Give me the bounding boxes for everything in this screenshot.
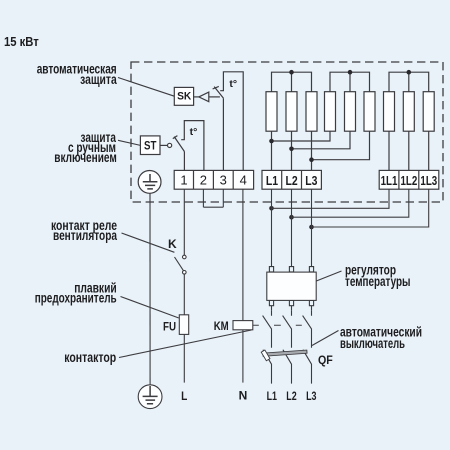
- svg-text:включением: включением: [54, 150, 117, 166]
- temperature regulator box: [267, 272, 316, 300]
- label: регулятор температуры: [345, 263, 411, 290]
- label leader to QF breaker: [312, 331, 339, 346]
- earth electrode symbol (bottom ground): [138, 385, 162, 409]
- regulator top pin 2: [289, 267, 293, 272]
- heating element 4: [325, 92, 336, 132]
- regulator bottom pin 2: [289, 301, 293, 311]
- wire K to fuse FU: [183, 274, 185, 315]
- wire arrow to SK thermal contact: [209, 96, 220, 98]
- wire SK to arrow: [194, 96, 199, 98]
- wire element 6 bottom to phase 3: [312, 131, 370, 160]
- thermal contact blade of SK: [214, 87, 223, 99]
- svg-text:1L3: 1L3: [420, 174, 437, 188]
- wire element 3 bottom to terminal L3: [311, 131, 313, 170]
- svg-text:контактор: контактор: [64, 350, 116, 366]
- label: автоматический выключатель: [340, 325, 422, 353]
- wire coil to N: [242, 330, 244, 383]
- heating element 2: [286, 92, 297, 132]
- svg-text:L1: L1: [267, 389, 278, 403]
- label leader to KM coil: [119, 330, 252, 358]
- heating element 7: [384, 92, 395, 132]
- svg-text:защита: защита: [80, 72, 117, 88]
- contactor coil KM: [233, 321, 253, 330]
- wire ST blade down to terminal 1: [183, 152, 185, 171]
- wire terminal 4 to contactor coil: [242, 189, 244, 320]
- wire ST to contact circle: [160, 144, 167, 146]
- mechanical linkage KM: [253, 324, 302, 326]
- svg-text:L3: L3: [306, 389, 317, 403]
- terminal labels 1L1 1L2 1L3: [381, 174, 438, 188]
- heater group 1 top bus: [272, 72, 312, 92]
- regulator bottom pin 1: [269, 301, 273, 311]
- junction dot element4/phase1: [269, 139, 274, 144]
- label: контакт реле вентилятора: [51, 218, 117, 244]
- contactor KM contact 1: [263, 310, 272, 348]
- svg-text:15 кВт: 15 кВт: [4, 34, 39, 49]
- wire t° box left leg down to terminal 3: [222, 98, 224, 170]
- heating element 9: [423, 92, 434, 132]
- arrow (actuator triangle) of SK: [199, 92, 209, 102]
- contactor KM contact 3: [303, 310, 312, 348]
- label leader to K contact: [122, 233, 175, 252]
- breaker QF contact 3: [303, 350, 312, 384]
- label: автоматическая защита: [37, 62, 117, 88]
- wire element 5 bottom to phase 2: [292, 131, 351, 149]
- label leader to temperature regulator: [316, 271, 341, 281]
- wire fuse to L: [183, 334, 185, 382]
- svg-text:1: 1: [180, 173, 187, 188]
- fuse FU: [179, 315, 188, 335]
- fan relay contact K: wire from terminal 1: [183, 189, 185, 255]
- label: защита с ручным включением: [54, 130, 117, 166]
- heating element 6: [364, 92, 375, 132]
- temperature sensor box t° (SK circuit): [220, 72, 243, 171]
- junction dot phase3/1L3 jog: [309, 225, 314, 230]
- breaker QF contact 2: [283, 350, 292, 384]
- svg-text:L: L: [181, 389, 187, 403]
- wire element 7 bottom to terminal 1L1: [388, 131, 390, 170]
- wire terminal L1 down to regulator pin 1: [271, 189, 273, 266]
- heater group 3 top bus: [389, 72, 429, 92]
- thermal actuation tick on ST blade: [173, 136, 178, 139]
- wire terminal 3 to bridge: [222, 189, 224, 207]
- breaker QF link bar: [263, 350, 307, 356]
- relay SK box: [174, 87, 193, 105]
- terminal block 1L1 1L2 1L3: [379, 170, 439, 189]
- terminal labels L1 L2 L3: [266, 174, 318, 188]
- junction dot phase2/1L2 jog: [289, 215, 294, 220]
- contactor KM contact 2: [283, 310, 292, 348]
- heating element 8: [403, 92, 414, 132]
- thermal actuation tick on SK blade: [213, 86, 219, 89]
- junction dot group 2 bus: [348, 70, 353, 75]
- K blade: [175, 257, 184, 270]
- svg-text:FU: FU: [163, 320, 176, 334]
- svg-text:4: 4: [240, 173, 247, 188]
- wire terminal 1L2 to phase 2 jog: [292, 189, 409, 217]
- svg-text:L3: L3: [305, 174, 317, 188]
- wire terminal L3 down to regulator pin 3: [311, 189, 313, 266]
- contact circle of ST switch: [168, 143, 172, 147]
- svg-text:L2: L2: [286, 174, 298, 188]
- regulator top pin 1: [269, 267, 273, 272]
- wire terminal 1L3 to phase 3 jog: [312, 189, 429, 227]
- wire terminal L2 down to regulator pin 2: [291, 189, 293, 266]
- thermal contact blade of ST: [174, 137, 184, 152]
- wire PE terminal to earth: [149, 193, 151, 385]
- svg-text:L2: L2: [286, 389, 297, 403]
- svg-text:t°: t°: [229, 78, 237, 90]
- terminal numbers 1 2 3 4: [180, 173, 247, 188]
- breaker QF contact 1: [263, 350, 272, 384]
- label: плавкий предохранитель: [35, 281, 117, 307]
- PE terminal symbol (top ground): [138, 171, 161, 194]
- terminal block L1 L2 L3: [262, 170, 321, 189]
- junction dot group 3 bus: [407, 70, 412, 75]
- junction dot element5/phase2: [289, 147, 294, 152]
- svg-text:выключатель: выключатель: [340, 336, 405, 352]
- bottom phase labels: [181, 389, 317, 404]
- svg-text:KM: KM: [214, 319, 229, 333]
- label leader to FU fuse: [121, 297, 179, 319]
- bridge wire terminals 2-3: [203, 206, 223, 208]
- svg-text:t°: t°: [190, 126, 198, 138]
- regulator top pin 3: [309, 267, 313, 272]
- K upper contact circle: [183, 255, 187, 259]
- heating element 1: [266, 92, 277, 132]
- regulator bottom pin 3: [309, 301, 313, 311]
- svg-text:SK: SK: [177, 91, 191, 103]
- heater group 2 top bus: [330, 72, 370, 92]
- K lower contact circle: [183, 271, 187, 275]
- enclosure (dashed unit boundary): [131, 62, 443, 202]
- wire terminal 1L1 to phase 1 jog: [272, 189, 390, 208]
- svg-text:3: 3: [220, 173, 227, 188]
- heating element 3: [306, 92, 317, 132]
- wire element 9 bottom to terminal 1L3: [428, 131, 430, 170]
- svg-text:1L2: 1L2: [401, 174, 418, 188]
- label leader to ST: [118, 140, 140, 145]
- svg-text:2: 2: [200, 173, 207, 188]
- wire element 1 bottom to terminal L1: [271, 131, 273, 170]
- terminal block 1 2 3 4: [174, 170, 253, 189]
- breaker QF handle: [261, 350, 270, 361]
- wire element 4 bottom to phase 1: [272, 131, 331, 141]
- svg-text:QF: QF: [318, 353, 333, 367]
- junction dot group 1 bus: [289, 70, 294, 75]
- temperature sensor box t° (ST circuit): [181, 121, 204, 171]
- junction dot element6/phase3: [309, 157, 314, 162]
- svg-text:N: N: [239, 389, 248, 403]
- junction dot phase1/1L1 jog: [269, 206, 274, 211]
- svg-text:предохранитель: предохранитель: [35, 291, 117, 307]
- heating element 5: [345, 92, 356, 132]
- svg-text:K: K: [168, 237, 177, 251]
- wire element 8 bottom to terminal 1L2: [408, 131, 410, 170]
- svg-text:температуры: температуры: [345, 274, 411, 290]
- svg-text:вентилятора: вентилятора: [53, 228, 117, 244]
- wire element 2 bottom to terminal L2: [291, 131, 293, 170]
- svg-text:L1: L1: [266, 174, 278, 188]
- relay ST box: [140, 136, 160, 155]
- svg-text:ST: ST: [144, 140, 156, 152]
- wire terminal 2 to bridge: [202, 189, 204, 207]
- label leader to SK: [118, 78, 174, 97]
- svg-text:1L1: 1L1: [381, 174, 398, 188]
